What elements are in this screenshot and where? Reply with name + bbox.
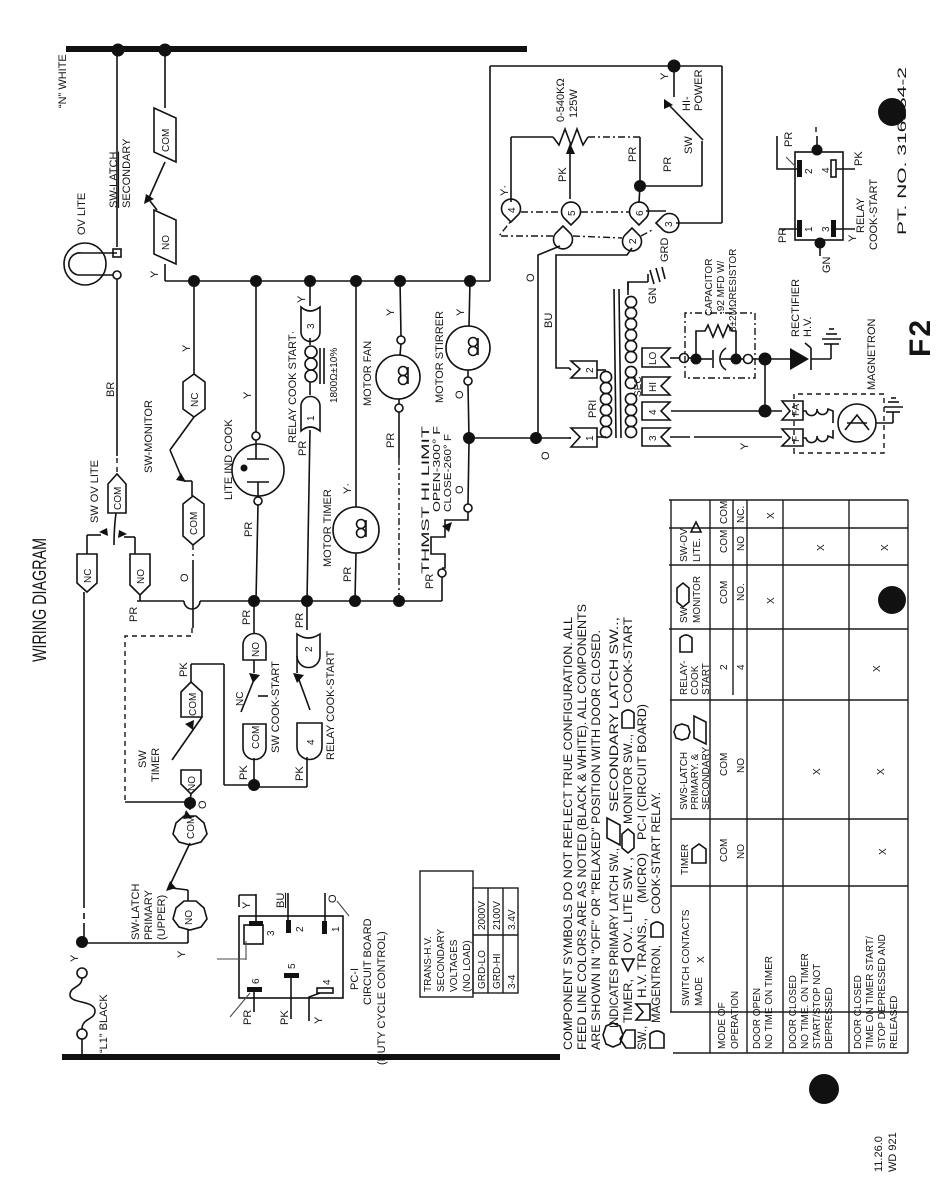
- svg-text:SWS-LATCH: SWS-LATCH: [679, 752, 690, 810]
- svg-text:COM: COM: [188, 693, 199, 716]
- junction Y/monitor: [188, 275, 200, 287]
- wire Y loop right: [490, 65, 722, 67]
- svg-text:FEED LINE COLORS ARE AS NOTED: FEED LINE COLORS ARE AS NOTED (BLACK & W…: [577, 604, 589, 1050]
- note line 5: ov lite symbol: [622, 959, 634, 971]
- wire pin 5 PK: [290, 978, 292, 1019]
- svg-text:DOOR CLOSED: DOOR CLOSED: [853, 975, 864, 1049]
- svg-text:PK: PK: [294, 766, 306, 781]
- junction Y/motor fan: [394, 275, 406, 287]
- pin 4 bar: [831, 160, 836, 177]
- svg-text:SW COOK-START: SW COOK-START: [270, 661, 282, 753]
- svg-text:COM: COM: [719, 501, 730, 524]
- terminal circle: [252, 432, 260, 440]
- svg-text:OV.. LITE SW. ,: OV.. LITE SW. ,: [623, 857, 635, 953]
- contact NO: [243, 634, 266, 661]
- svg-text:RELEASED: RELEASED: [889, 996, 900, 1049]
- svg-text:LITE.: LITE.: [692, 538, 703, 562]
- svg-text:NC: NC: [83, 569, 94, 583]
- svg-text:4: 4: [306, 739, 317, 745]
- wire pin 6 PR: [253, 992, 255, 1012]
- node HV primary bus: [469, 437, 571, 439]
- board PC-I: [217, 893, 388, 1065]
- svg-text:Y: Y: [149, 270, 161, 278]
- blade: [170, 843, 190, 885]
- svg-text:O: O: [525, 273, 537, 282]
- junction cap left: [691, 354, 702, 365]
- terminal F: [782, 429, 803, 446]
- svg-text:PC-I (CIRCUIT BOARD): PC-I (CIRCUIT BOARD): [637, 704, 649, 840]
- svg-text:MAGNETRON: MAGNETRON: [866, 318, 878, 390]
- frame lines: [673, 1052, 908, 1054]
- svg-text:Y: Y: [242, 391, 254, 399]
- switch SW HI-POWER: [640, 69, 705, 186]
- wire Y loop to pin 3: [721, 66, 723, 223]
- relay coil box RELAY COOK-START: [777, 125, 880, 273]
- svg-text:CLOSE-260° F: CLOSE-260° F: [443, 434, 454, 512]
- junction Y/motor stirrer: [464, 275, 476, 287]
- wire O route blank diamond to PRI 1: [538, 246, 560, 438]
- svg-text:COM: COM: [113, 487, 124, 510]
- svg-text:NC: NC: [235, 692, 246, 706]
- wire Y loop top: [489, 66, 491, 281]
- svg-text:RECTIFIER: RECTIFIER: [790, 279, 802, 337]
- wire LO to cap: [670, 357, 680, 359]
- svg-text:SW.,: SW.,: [637, 1026, 649, 1050]
- link 4-5 dashdot: [521, 211, 561, 213]
- svg-text:MOTOR STIRRER: MOTOR STIRRER: [434, 311, 446, 403]
- junction stirrer/thermostat: [463, 432, 475, 444]
- capacitor network: [670, 249, 755, 378]
- svg-text:F: F: [791, 436, 802, 442]
- svg-text:PK: PK: [279, 1010, 291, 1025]
- pin 6: [247, 987, 262, 992]
- svg-text:11.26.0: 11.26.0: [873, 1136, 885, 1172]
- junction right edge: [812, 145, 823, 156]
- junction Y loop / hi-power: [668, 60, 681, 73]
- svg-text:MONITOR: MONITOR: [692, 576, 703, 623]
- motor MOTOR STIRRER rung: [434, 281, 490, 438]
- punch hole middle: [878, 586, 906, 614]
- svg-text:X: X: [812, 768, 823, 775]
- blade: [668, 104, 703, 140]
- wire pin 1 O: [324, 893, 326, 921]
- svg-text:3: 3: [664, 221, 675, 227]
- pin 3: [656, 214, 679, 233]
- wire PK node to COM: [224, 784, 254, 786]
- svg-text:Y: Y: [181, 344, 193, 352]
- junction PK node: [248, 779, 260, 791]
- svg-text:1: 1: [306, 415, 317, 421]
- svg-text:WD 921: WD 921: [887, 1132, 899, 1172]
- svg-text:RELAY-: RELAY-: [679, 661, 690, 695]
- junction Y/motor timer: [350, 275, 362, 287]
- svg-text:PR: PR: [294, 613, 306, 628]
- svg-text:START/STOP NOT: START/STOP NOT: [812, 964, 823, 1049]
- svg-text:SW: SW: [137, 750, 149, 768]
- arrow: [176, 473, 186, 482]
- motor circle: [446, 326, 490, 370]
- junction PR node hi-power: [634, 180, 646, 192]
- svg-text:3-4: 3-4: [507, 974, 518, 989]
- wire NO to O junction: [190, 794, 191, 800]
- filament coil F: [803, 430, 833, 443]
- svg-text:Y: Y: [69, 954, 81, 962]
- contact 2: [297, 634, 320, 668]
- wire pin 3 Y: [836, 228, 855, 230]
- svg-text:2: 2: [585, 367, 596, 373]
- switch SW-MONITOR rung: [143, 281, 205, 628]
- junction Y/lite-ind: [250, 275, 262, 287]
- svg-text:X: X: [816, 544, 827, 551]
- svg-text:COMPONENT SYMBOLS DO NOT REFLE: COMPONENT SYMBOLS DO NOT REFLECT TRUE CO…: [563, 616, 575, 1050]
- wire O bus to NO: [253, 601, 255, 634]
- relay RELAY COOK START coil rung: [287, 281, 340, 601]
- svg-text:COM: COM: [161, 129, 172, 152]
- ground GRD chassis: [648, 267, 665, 284]
- svg-text:DOOR OPEN: DOOR OPEN: [752, 988, 763, 1049]
- svg-text:X: X: [876, 768, 887, 775]
- wire Y bus to terminal 3: [309, 281, 311, 306]
- terminal FA: [782, 401, 803, 420]
- enclosure dashed box: [794, 394, 884, 453]
- svg-text:Y: Y: [241, 901, 253, 909]
- svg-text:X: X: [696, 956, 707, 963]
- terminal flag LO: [642, 348, 670, 367]
- terminal flag HI: [642, 377, 670, 395]
- wire resistor right dashdot: [588, 136, 640, 138]
- wire 4 to PK node: [306, 757, 308, 787]
- svg-text:PR: PR: [297, 441, 309, 456]
- svg-text:CIRCUIT BOARD: CIRCUIT BOARD: [362, 918, 374, 1005]
- svg-text:PR: PR: [241, 610, 253, 625]
- svg-text:SW OV LITE: SW OV LITE: [89, 460, 101, 523]
- svg-text:4: 4: [736, 664, 747, 670]
- svg-text:TIME ON TIMER START/: TIME ON TIMER START/: [865, 936, 876, 1049]
- pin 3 bar: [831, 220, 836, 237]
- svg-text:ARE SHOWN IN "OFF" OR "RELAXED: ARE SHOWN IN "OFF" OR "RELAXED" POSITION…: [591, 630, 603, 1050]
- svg-text:PRIMARY: PRIMARY: [143, 889, 155, 940]
- wire pin3 internal: [217, 941, 246, 960]
- svg-text:Y: Y: [385, 308, 397, 316]
- contact NO octagon: [173, 901, 207, 930]
- contact NO: [130, 554, 150, 595]
- svg-text:WIRING DIAGRAM: WIRING DIAGRAM: [30, 538, 51, 662]
- svg-text:8±2MΩRESISTOR: 8±2MΩRESISTOR: [728, 249, 739, 332]
- svg-text:.92 MFD W/: .92 MFD W/: [716, 260, 727, 314]
- wire SW OV LITE NC to L1 plug: [83, 592, 85, 908]
- svg-text:RELAY: RELAY: [855, 197, 867, 233]
- wire pin 4 Y: [309, 993, 320, 1021]
- svg-text:F2: F2: [904, 318, 937, 357]
- punch hole top: [878, 98, 906, 126]
- note line 5: cook-start symbol: [622, 710, 634, 728]
- svg-text:4: 4: [507, 207, 518, 213]
- svg-text:NC.: NC.: [736, 506, 747, 523]
- notes text block: [563, 604, 664, 1050]
- svg-text:PR: PR: [242, 1010, 254, 1025]
- svg-text:Y: Y: [296, 295, 308, 303]
- svg-text:(UPPER): (UPPER): [156, 895, 168, 940]
- terminal flag 4: [642, 402, 670, 420]
- punch hole bottom: [809, 1074, 839, 1104]
- svg-text:PK: PK: [238, 765, 250, 780]
- switch SW OV LITE: [77, 460, 150, 595]
- wire to O bus: [355, 553, 356, 601]
- terminal flag 3: [642, 428, 670, 446]
- svg-text:3: 3: [266, 930, 277, 936]
- svg-text:STOP DEPRESSED AND: STOP DEPRESSED AND: [877, 934, 888, 1049]
- svg-text:Y: Y: [176, 950, 188, 958]
- arrow to NC: [99, 528, 108, 536]
- svg-text:O: O: [179, 573, 191, 582]
- svg-text:“N” WHITE: “N” WHITE: [57, 54, 69, 108]
- wire 3 to F: [670, 436, 690, 438]
- svg-text:GN: GN: [647, 287, 659, 304]
- bimetal element: [431, 512, 468, 568]
- contact COM octagon: [173, 816, 207, 845]
- svg-text:4: 4: [821, 167, 832, 173]
- filament coil FA: [803, 409, 833, 423]
- contact NO timer: [181, 770, 201, 794]
- svg-text:MOTOR TIMER: MOTOR TIMER: [322, 489, 334, 567]
- junction FA node: [671, 410, 765, 412]
- svg-text:PK: PK: [178, 662, 190, 677]
- junction left edge GN: [815, 238, 826, 249]
- blade: [253, 660, 255, 673]
- svg-text:NO: NO: [187, 776, 198, 791]
- switch SW-LATCH SECONDARY: [108, 52, 176, 281]
- magnetron: [670, 318, 903, 453]
- note line 4: primary latch symbol: [603, 1023, 623, 1047]
- svg-text:2: 2: [628, 238, 639, 244]
- svg-text:2100V: 2100V: [492, 901, 503, 930]
- wire pin 1 PR: [779, 228, 797, 230]
- svg-text:OPERATION: OPERATION: [730, 991, 741, 1049]
- svg-text:Y: Y: [455, 308, 467, 316]
- lamp OV LITE: [64, 243, 121, 285]
- pin 4: [317, 988, 333, 993]
- svg-text:PR: PR: [243, 522, 255, 537]
- svg-text:3: 3: [306, 323, 317, 329]
- svg-text:SW-LATCH: SW-LATCH: [130, 884, 142, 940]
- svg-text:DEPRESSED: DEPRESSED: [824, 987, 835, 1049]
- magnetron tube: [838, 404, 876, 442]
- blade: [114, 513, 116, 545]
- junction Y node to latch primary: [76, 936, 88, 948]
- svg-text:2: 2: [719, 664, 730, 670]
- junction O/timer: [349, 595, 361, 607]
- svg-text:PR: PR: [385, 433, 397, 448]
- svg-text:VOLTAGES: VOLTAGES: [449, 939, 460, 992]
- svg-text:SW: SW: [683, 136, 695, 154]
- switch SW TIMER: [137, 662, 254, 800]
- wire SW OV LITE NO to O bus: [139, 595, 141, 601]
- ground chassis magnetron: [884, 398, 903, 412]
- junction N-bus / SW-LATCH SECONDARY: [159, 44, 172, 57]
- svg-text:PRIMARY. &: PRIMARY. &: [690, 753, 701, 810]
- blade: [293, 673, 304, 683]
- svg-text:1800Ω±10%: 1800Ω±10%: [329, 348, 340, 403]
- svg-text:PT. NO. 316554-2: PT. NO. 316554-2: [895, 66, 909, 235]
- svg-text:NO: NO: [251, 642, 262, 657]
- wire N to COM: [164, 52, 166, 108]
- svg-text:SW-LATCH: SW-LATCH: [108, 152, 120, 208]
- svg-text:PR: PR: [777, 228, 789, 243]
- svg-text:BU: BU: [543, 313, 555, 328]
- svg-text:6: 6: [251, 978, 262, 984]
- svg-text:O: O: [540, 451, 552, 460]
- svg-text:SECONDARY: SECONDARY: [701, 747, 712, 810]
- svg-text:O: O: [454, 485, 466, 494]
- wire lamp to O bus: [256, 505, 258, 601]
- link 2-3 dashdot: [641, 229, 654, 236]
- capacitor .92 MFD: [696, 358, 712, 360]
- wire Y bus to lamp: [255, 281, 257, 432]
- link blank-2 dashdot: [573, 236, 622, 238]
- transformer H.V. TRANS: [569, 238, 671, 448]
- wire BU route pin2-diamond to PRI 2: [556, 248, 632, 370]
- svg-text:FA: FA: [791, 403, 802, 416]
- svg-text:X: X: [872, 665, 883, 672]
- svg-text:0-540KΩ: 0-540KΩ: [555, 78, 567, 122]
- svg-text:X: X: [878, 848, 889, 855]
- wire pin 2 BU: [287, 893, 289, 920]
- pin 4: [502, 199, 521, 222]
- svg-text:MOTOR FAN: MOTOR FAN: [362, 341, 374, 406]
- plug connection on L1: [70, 968, 95, 1054]
- wire COM to PK node: [253, 758, 255, 783]
- motor circle: [333, 507, 379, 553]
- svg-text:COM: COM: [251, 726, 262, 749]
- connector pins group: [499, 199, 679, 251]
- table TRANS-H.V. SECONDARY VOLTAGES: [420, 871, 518, 997]
- svg-text:COOK-START RELAY.: COOK-START RELAY.: [651, 792, 663, 914]
- svg-text:CAPACITOR: CAPACITOR: [704, 259, 715, 316]
- svg-text:MODE OF: MODE OF: [717, 1002, 728, 1049]
- contact NC: [77, 554, 97, 592]
- pin 3: [249, 921, 263, 926]
- svg-text:1: 1: [585, 435, 596, 441]
- junction O/fan: [393, 595, 405, 607]
- svg-text:O: O: [197, 800, 209, 809]
- resistor 8 megohm: [696, 325, 736, 359]
- svg-text:COM: COM: [719, 581, 730, 604]
- wire N bus to OV LITE lamp: [116, 52, 118, 247]
- wire pin 2 PR: [777, 136, 797, 169]
- wire O dashed link to timer chain: [125, 628, 192, 802]
- svg-text:SWITCH CONTACTS: SWITCH CONTACTS: [681, 909, 692, 1006]
- thermostat THMST HI LIMIT: [420, 426, 472, 601]
- svg-text:PR: PR: [342, 567, 354, 582]
- pin 5: [561, 202, 580, 225]
- svg-text:TRANS-H.V.: TRANS-H.V.: [423, 936, 434, 992]
- svg-text:4: 4: [322, 979, 333, 985]
- svg-text:COM: COM: [719, 530, 730, 553]
- svg-text:2: 2: [304, 646, 315, 652]
- node N bus (white line): [66, 46, 527, 52]
- contact COM: [183, 496, 204, 545]
- svg-text:6: 6: [635, 210, 646, 216]
- svg-text:SECONDARY: SECONDARY: [436, 929, 447, 992]
- svg-text:PK: PK: [853, 151, 865, 166]
- junction O/relay: [301, 595, 313, 607]
- blade: [170, 417, 194, 450]
- table switch contacts: [669, 500, 908, 1053]
- svg-text:COOK-START: COOK-START: [623, 617, 635, 703]
- pin 2: [623, 228, 642, 251]
- wire pin 4 PK: [836, 168, 855, 170]
- svg-text:HI: HI: [648, 382, 659, 392]
- svg-text:4: 4: [648, 409, 659, 415]
- contact COM timer: [181, 682, 202, 717]
- svg-text:125W: 125W: [568, 89, 580, 118]
- terminal circle: [254, 497, 262, 505]
- pin 2 bar: [797, 160, 802, 177]
- svg-text:NC: NC: [190, 393, 201, 407]
- contact COM: [154, 108, 176, 162]
- svg-text:COM: COM: [186, 816, 197, 839]
- svg-text:5: 5: [287, 963, 298, 969]
- svg-text:GRD-HI: GRD-HI: [492, 953, 503, 989]
- svg-text:NO: NO: [184, 910, 195, 925]
- wire O bus to contact 2: [306, 601, 308, 630]
- svg-text:3.4V: 3.4V: [507, 909, 518, 930]
- svg-text:MONITOR SW..,: MONITOR SW..,: [623, 734, 635, 824]
- svg-text:INDICATES PRIMARY LATCH SW.,: INDICATES PRIMARY LATCH SW.,: [609, 848, 621, 1028]
- svg-text:TIMER,: TIMER,: [623, 979, 635, 1023]
- svg-text:SECONDARY: SECONDARY: [121, 138, 133, 208]
- potentiometer 0-540K: [499, 78, 640, 202]
- svg-text:NO: NO: [736, 536, 747, 551]
- terminal flag 1 PRI: [571, 428, 597, 447]
- link 6-3: [646, 210, 666, 212]
- wiper arrow: [566, 143, 575, 154]
- terminal 1: [301, 397, 320, 432]
- lamp LITE IND COOK: [232, 444, 284, 496]
- note line 7: magnetron symbol: [650, 1031, 664, 1048]
- rectifier H.V.: [765, 279, 841, 370]
- terminal 3: [301, 307, 320, 342]
- link row2 to pin4: [499, 221, 553, 236]
- svg-text:GRD-LO: GRD-LO: [477, 950, 488, 989]
- svg-text:COM: COM: [189, 512, 200, 535]
- wire OV LITE lamp to SW OV LITE: [116, 279, 118, 456]
- junction N-bus / OV LITE lead: [112, 44, 125, 57]
- arrow: [442, 522, 452, 532]
- svg-text:2000V: 2000V: [477, 901, 488, 930]
- node O bus: [137, 601, 442, 609]
- svg-text:SW-MONITOR: SW-MONITOR: [143, 400, 155, 473]
- svg-text:3: 3: [821, 226, 832, 232]
- svg-text:X: X: [766, 597, 777, 604]
- pin 2: [286, 920, 291, 933]
- motor circle: [376, 355, 420, 399]
- wire COM to O bus (passes hop): [192, 545, 194, 556]
- wire pin 3 Y: [255, 894, 257, 921]
- svg-text:Y: Y: [659, 72, 671, 80]
- svg-text:X: X: [880, 544, 891, 551]
- svg-text:NO TIME ON TIMER: NO TIME ON TIMER: [764, 956, 775, 1049]
- svg-text:1: 1: [331, 926, 342, 932]
- svg-text:COOK: COOK: [690, 665, 701, 695]
- switch SW COOK-START: [235, 601, 282, 783]
- wire SEC to ground: [628, 282, 648, 290]
- motor MOTOR FAN rung: [362, 281, 420, 601]
- svg-text:COM: COM: [719, 753, 730, 776]
- note line 4: secondary latch symbol: [607, 818, 620, 845]
- junction O-wire/pri: [530, 432, 542, 444]
- wire Y bus to NC: [193, 281, 195, 374]
